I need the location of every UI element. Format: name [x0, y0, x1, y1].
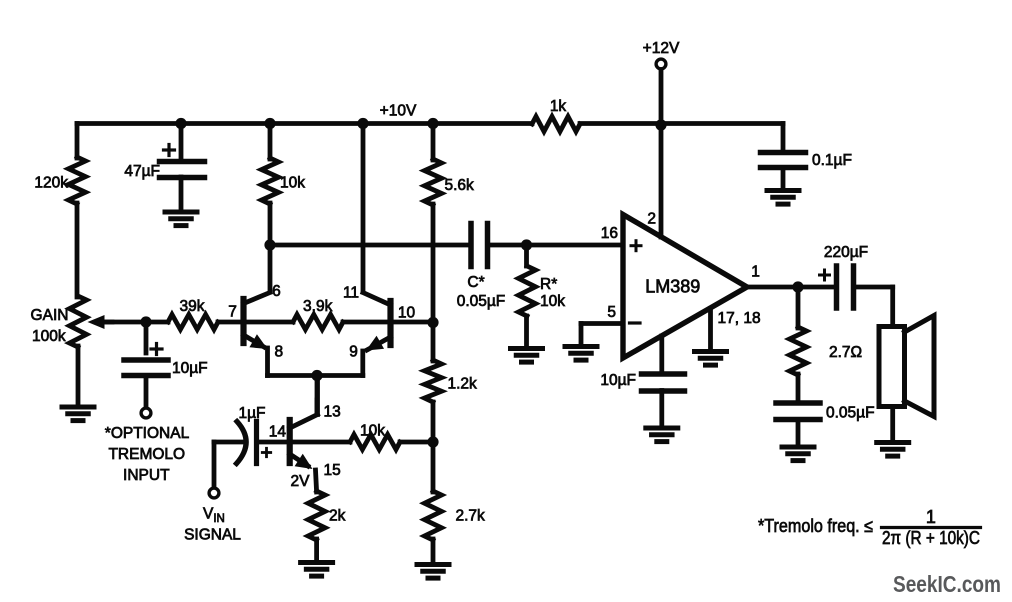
svg-text:0.1µF: 0.1µF	[812, 152, 852, 169]
svg-text:GAIN: GAIN	[31, 307, 69, 324]
svg-text:13: 13	[324, 404, 341, 421]
svg-text:0.05µF: 0.05µF	[826, 405, 875, 422]
svg-text:2V: 2V	[291, 473, 311, 490]
svg-text:10k: 10k	[360, 423, 385, 440]
svg-text:2.7Ω: 2.7Ω	[829, 344, 862, 361]
svg-text:39k: 39k	[180, 298, 205, 315]
svg-text:1: 1	[751, 264, 760, 281]
svg-text:R*: R*	[540, 276, 557, 293]
svg-text:C*: C*	[467, 274, 484, 291]
svg-text:5: 5	[607, 304, 616, 321]
svg-text:14: 14	[269, 424, 287, 441]
svg-text:10k: 10k	[280, 175, 305, 192]
svg-text:2π (R + 10k)C: 2π (R + 10k)C	[882, 528, 980, 548]
svg-text:15: 15	[324, 462, 341, 479]
svg-text:16: 16	[601, 225, 618, 242]
svg-text:+12V: +12V	[643, 40, 680, 57]
svg-text:10µF: 10µF	[172, 360, 208, 377]
svg-text:0.05µF: 0.05µF	[457, 293, 506, 310]
svg-text:6: 6	[272, 283, 281, 300]
svg-text:10k: 10k	[540, 293, 565, 310]
svg-text:SIGNAL: SIGNAL	[184, 527, 241, 544]
svg-text:120k: 120k	[34, 175, 68, 192]
svg-text:2.7k: 2.7k	[456, 508, 486, 525]
svg-text:10µF: 10µF	[600, 372, 636, 389]
svg-text:3.9k: 3.9k	[303, 298, 333, 315]
svg-text:7: 7	[228, 304, 237, 321]
svg-text:LM389: LM389	[645, 277, 700, 297]
svg-text:1µF: 1µF	[238, 405, 265, 422]
svg-text:SeekIC.com: SeekIC.com	[893, 571, 1001, 597]
svg-text:+10V: +10V	[380, 103, 417, 120]
svg-text:11: 11	[343, 285, 359, 302]
svg-text:8: 8	[274, 344, 283, 361]
svg-text:1: 1	[926, 507, 936, 527]
svg-text:1k: 1k	[550, 98, 567, 115]
svg-text:*OPTIONAL: *OPTIONAL	[105, 425, 190, 442]
svg-text:10: 10	[398, 305, 416, 322]
svg-text:5.6k: 5.6k	[445, 177, 475, 194]
svg-text:17, 18: 17, 18	[718, 310, 761, 327]
svg-text:100k: 100k	[32, 328, 66, 345]
svg-text:2k: 2k	[329, 508, 346, 525]
svg-text:2: 2	[647, 211, 656, 228]
svg-text:*Tremolo freq. ≤: *Tremolo freq. ≤	[758, 516, 873, 536]
svg-text:1.2k: 1.2k	[448, 376, 478, 393]
svg-text:INPUT: INPUT	[123, 467, 170, 484]
svg-text:47µF: 47µF	[124, 163, 160, 180]
svg-text:9: 9	[349, 344, 358, 361]
svg-text:220µF: 220µF	[824, 244, 868, 261]
svg-text:TREMOLO: TREMOLO	[108, 446, 185, 463]
